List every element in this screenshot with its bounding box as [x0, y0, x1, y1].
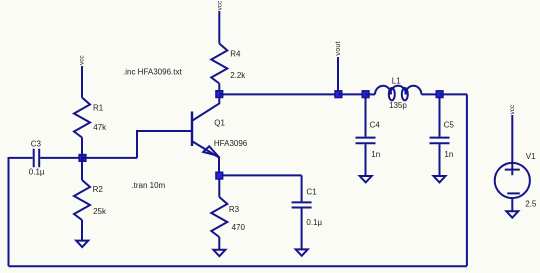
L1 value 135p — [389, 101, 407, 110]
wire: vcc to R1 — [81, 66, 83, 98]
svg-text:C3: C3 — [31, 140, 42, 149]
R3 label — [229, 205, 240, 214]
wire: collector node to vout node (main output net) — [219, 93, 338, 95]
svg-text:R1: R1 — [93, 104, 104, 113]
svg-text:0.1µ: 0.1µ — [306, 218, 322, 227]
R1 label — [93, 104, 104, 113]
transistor Q1 (npn HFA3096) — [192, 97, 219, 172]
capacitor C1 — [292, 202, 312, 249]
wire: vout label stub — [337, 57, 339, 94]
voltage source V1 — [495, 163, 530, 198]
L1 label — [392, 76, 401, 85]
resistor R2 — [74, 180, 90, 220]
svg-text:C4: C4 — [370, 121, 381, 130]
svg-text:C5: C5 — [444, 121, 455, 130]
wire: vcc to V1 — [511, 115, 513, 175]
R4 value 2.2k — [230, 71, 246, 80]
ground (below C1) — [296, 249, 308, 255]
svg-text:135p: 135p — [389, 101, 407, 110]
wire: V1 to ground — [511, 198, 513, 211]
svg-text:1n: 1n — [371, 150, 380, 159]
C4 label — [370, 121, 381, 130]
wire: R4 to collector node — [218, 84, 220, 92]
node vout junction — [335, 91, 342, 98]
R2 label — [93, 185, 104, 194]
Q1 model label HFA3096 — [214, 139, 248, 148]
wire: R3 to ground — [218, 237, 220, 250]
node collector junction — [216, 91, 223, 98]
svg-text:V1: V1 — [526, 152, 536, 161]
resistor R3 — [211, 197, 227, 237]
ground (below C5) — [434, 176, 446, 182]
spice directive .inc HFA3096.txt — [123, 68, 182, 77]
resistor R1 — [74, 98, 90, 138]
svg-text:C1: C1 — [306, 187, 317, 196]
capacitor C5 — [430, 97, 450, 176]
C1 label — [306, 187, 317, 196]
svg-text:25k: 25k — [93, 207, 107, 216]
svg-text:0.1µ: 0.1µ — [29, 168, 45, 177]
svg-text:2.5: 2.5 — [525, 200, 537, 209]
svg-text:.inc HFA3096.txt: .inc HFA3096.txt — [123, 68, 182, 77]
R3 value 470 — [232, 223, 246, 232]
svg-text:vcc: vcc — [78, 55, 85, 65]
wire: down to C1 — [301, 175, 303, 201]
wire: step vertical — [136, 131, 138, 158]
ground (below R2) — [76, 241, 88, 247]
wire: vout node to C4 node — [338, 93, 366, 95]
svg-text:.tran 10m: .tran 10m — [131, 181, 165, 190]
resistor R4 — [211, 44, 227, 84]
svg-text:R3: R3 — [229, 205, 240, 214]
Q1 label — [214, 119, 225, 128]
svg-text:1n: 1n — [444, 150, 453, 159]
svg-text:R2: R2 — [93, 185, 104, 194]
wire: left input horizontal to C3 — [9, 157, 33, 159]
wire: R2 to ground — [81, 220, 83, 241]
wire: step to Q1 base — [136, 130, 192, 132]
capacitor C3 — [34, 149, 40, 168]
wire: node A to R2 — [81, 158, 83, 180]
net label vout — [335, 41, 342, 55]
C5 label — [444, 121, 455, 130]
wire: L1 to C5 node — [421, 93, 439, 95]
node C5 junction — [436, 91, 443, 98]
svg-text:vcc: vcc — [509, 104, 516, 114]
wire: R1 to node A — [81, 138, 83, 159]
power flag vcc (above R4) — [217, 0, 224, 10]
V1 value 2.5 — [525, 200, 537, 209]
wire: emitter node to C1 — [222, 174, 302, 176]
power flag vcc (above R1) — [78, 55, 85, 65]
wire: emitter node to R3 — [218, 179, 220, 197]
wire: C5 node to right corner — [440, 93, 468, 95]
svg-text:R4: R4 — [230, 50, 241, 59]
C5 value 1n — [444, 150, 453, 159]
spice directive .tran 10m — [131, 181, 165, 190]
svg-text:vout: vout — [335, 41, 342, 55]
svg-text:2.2k: 2.2k — [230, 71, 246, 80]
C3 label — [31, 140, 42, 149]
wire: node A to base step horizontal — [82, 157, 137, 159]
R4 label — [230, 50, 241, 59]
wire: left vertical (output loop to input) — [8, 157, 10, 266]
node C4 junction — [362, 91, 369, 98]
svg-text:470: 470 — [232, 223, 246, 232]
ground (below V1) — [506, 211, 518, 217]
inductor L1 — [375, 86, 421, 101]
svg-text:HFA3096: HFA3096 — [214, 139, 248, 148]
ground (below C4) — [360, 176, 372, 182]
svg-text:Q1: Q1 — [214, 119, 225, 128]
ground (below R3) — [213, 250, 225, 256]
wire: right vertical (output loop) — [466, 94, 468, 266]
svg-text:47k: 47k — [93, 123, 107, 132]
wire: C4 node to L1 — [366, 93, 376, 95]
C1 value 0.1µ — [306, 218, 322, 227]
C3 value 0.1µ — [29, 168, 45, 177]
wire: bottom horizontal (output loop) — [9, 265, 467, 267]
capacitor C4 — [356, 97, 376, 176]
node A junction (C3/R1/R2/base net) — [79, 155, 86, 162]
node emitter junction — [216, 172, 223, 179]
wire: vcc to R4 — [218, 11, 220, 44]
R1 value 47k — [93, 123, 107, 132]
wire: C3 to node A — [40, 157, 82, 159]
V1 label — [526, 152, 536, 161]
svg-text:vcc: vcc — [217, 0, 224, 10]
R2 value 25k — [93, 207, 107, 216]
svg-text:L1: L1 — [392, 76, 401, 85]
C4 value 1n — [371, 150, 380, 159]
power flag vcc (above V1) — [509, 104, 516, 114]
